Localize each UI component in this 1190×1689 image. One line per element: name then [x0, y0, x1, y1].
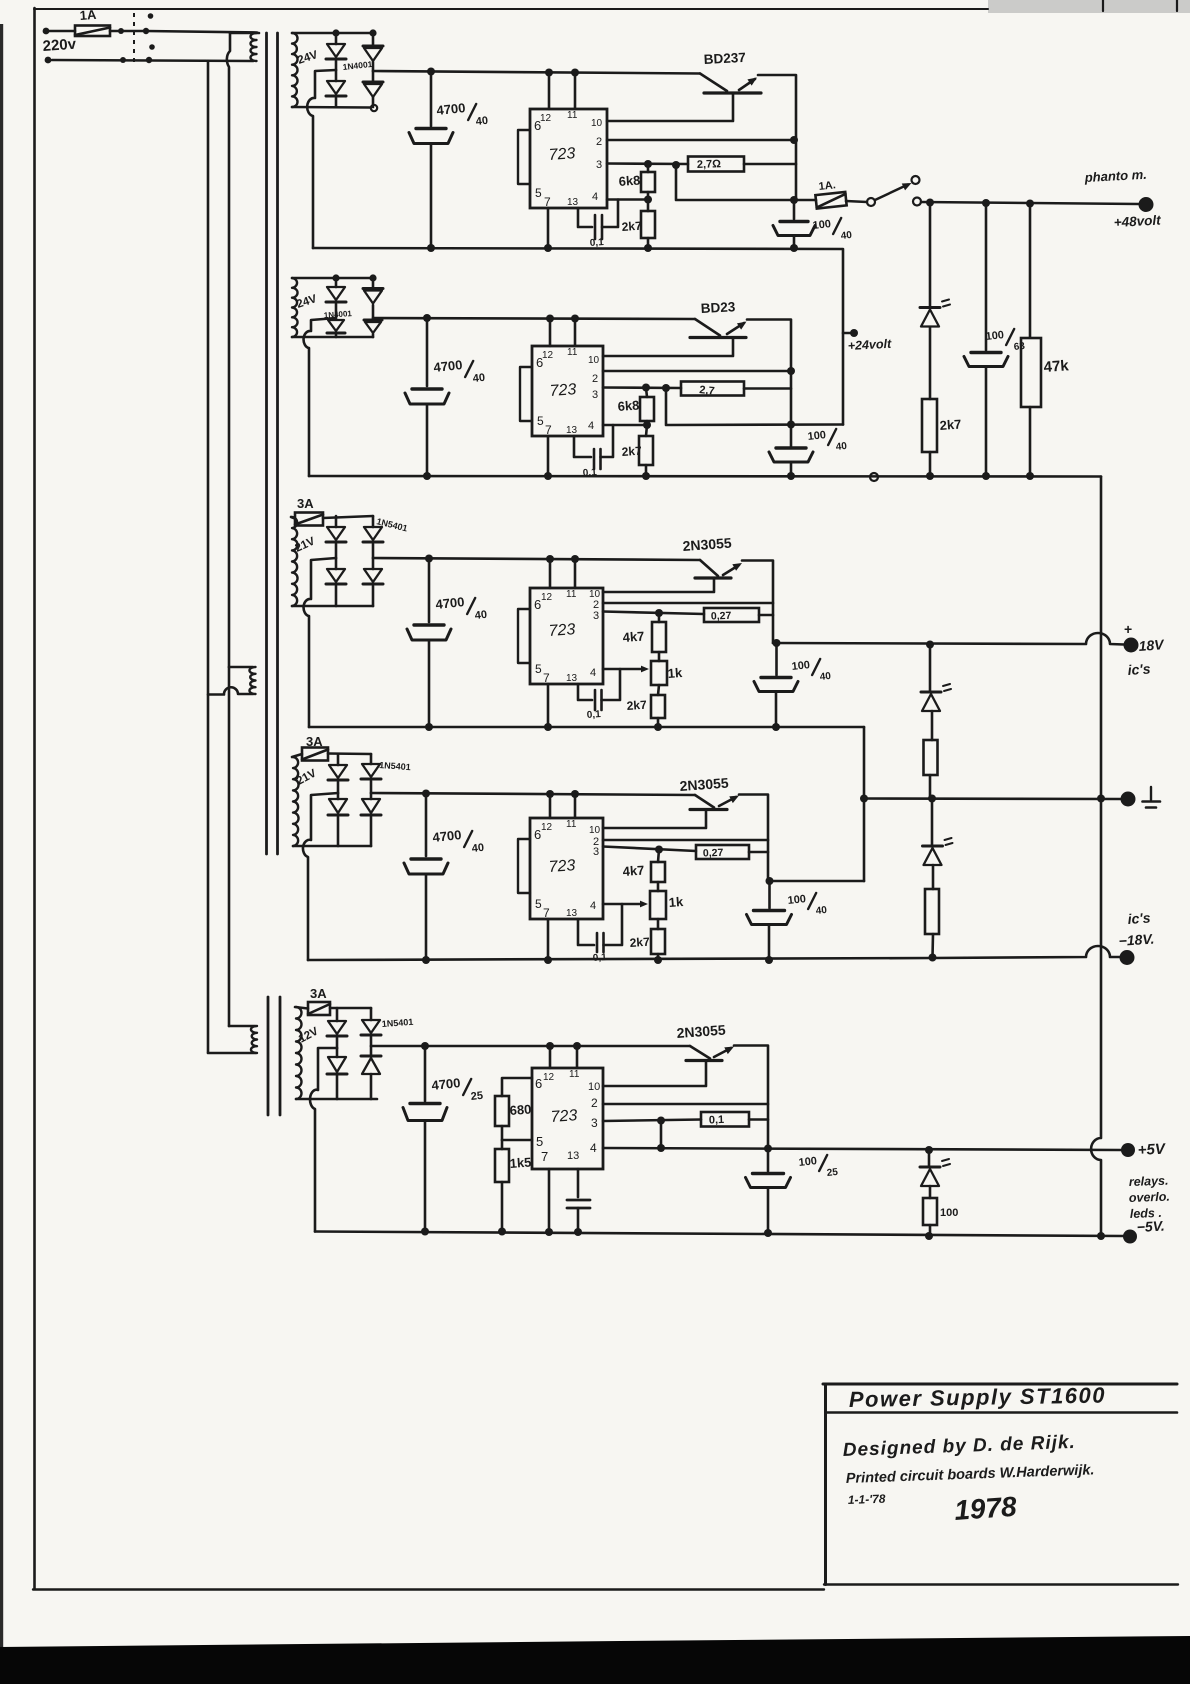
- wire U4 pin7 to bus: [547, 919, 550, 960]
- bridge B2 diode D8 top-right: [372, 278, 375, 287]
- svg-text:6: 6: [534, 827, 541, 842]
- capacitor C15 100/25: [767, 1149, 770, 1172]
- junction pin3 dots: [644, 160, 652, 168]
- svg-text:13: 13: [566, 425, 578, 436]
- capacitor C9 0.1: [578, 684, 592, 700]
- wire coil to fuse3: [291, 517, 295, 519]
- ground symbol: [1150, 787, 1152, 800]
- wire coil to fuse4: [292, 754, 302, 757]
- wire Q5 base to pin10: [603, 1061, 706, 1087]
- svg-text:3: 3: [596, 159, 602, 171]
- scanner gray band top-right: [988, 0, 1190, 13]
- bridge B3 diode top-right: [372, 516, 375, 527]
- svg-text:0,27: 0,27: [711, 610, 732, 623]
- resistor R2 6k8: [641, 172, 655, 192]
- wire input top: [49, 30, 75, 33]
- wire coil to fuse5: [295, 1007, 308, 1009]
- junction S1 rail dots: [427, 68, 435, 76]
- wire Q2 emitter down: [747, 320, 791, 425]
- svg-text:2k7: 2k7: [626, 698, 647, 713]
- wire fuse to switch: [110, 30, 146, 33]
- svg-text:2k7: 2k7: [621, 444, 642, 459]
- wire U2 pin2 sense: [603, 370, 791, 373]
- svg-text:ic's: ic's: [1127, 660, 1151, 678]
- transistor Q4 2N3055: [695, 795, 714, 808]
- wire P3 bottom: [208, 1052, 255, 1055]
- wire Q4 emitter down: [739, 795, 768, 882]
- wire U1 pin2 sense: [607, 139, 796, 142]
- transformer primary P2: [229, 666, 253, 669]
- junction -5V bus dots: [421, 1228, 429, 1236]
- switch S1a contacts: [118, 28, 124, 34]
- svg-text:12: 12: [541, 592, 553, 603]
- resistor R21 0.1ohm: [701, 1112, 749, 1127]
- open circle on 0V bus: [870, 473, 878, 481]
- svg-text:2,7: 2,7: [699, 384, 715, 398]
- transistor Q1 BD237: [700, 74, 727, 92]
- junction pin4-6k8 S2: [643, 421, 651, 429]
- svg-text:BD23: BD23: [700, 299, 736, 316]
- wire S2 DC rail: [373, 318, 695, 319]
- resistor R9 0.27ohm: [704, 608, 759, 622]
- wire U4 pin3: [603, 847, 696, 852]
- wire Q4 base to pin10: [603, 810, 706, 829]
- svg-text:0,1: 0,1: [586, 709, 601, 721]
- wire R9 to emitter line: [759, 614, 773, 617]
- svg-text:1978: 1978: [953, 1491, 1018, 1526]
- bridge B4 diode bottom-right: [370, 793, 373, 799]
- wire U3 pin4 to pot wiper: [603, 668, 643, 671]
- wire U5 pin7 to bus: [548, 1169, 551, 1232]
- wire W1 bottom bar: [292, 106, 370, 109]
- op-amp regulator U3 723: [530, 588, 603, 684]
- node -18V terminal: [1120, 950, 1135, 965]
- svg-text:6: 6: [536, 355, 543, 370]
- svg-text:3A: 3A: [310, 986, 327, 1001]
- wire +48V rail: [921, 202, 1139, 204]
- wire bridge1 AC2 down with hop: [307, 70, 336, 248]
- transformer primary P3: [229, 1025, 255, 1028]
- svg-text:40: 40: [471, 842, 484, 855]
- bridge B1 diode D1 top-left 1N4001: [335, 33, 338, 44]
- svg-text:0,1: 0,1: [709, 1114, 725, 1127]
- wire W5 bottom bar: [296, 1098, 377, 1101]
- resistor R8 2k7: [639, 436, 653, 465]
- wire Q5 emitter down: [734, 1046, 768, 1149]
- wire W2 bottom bar: [292, 336, 373, 339]
- wire U4 pin4 to pot wiper: [603, 903, 642, 906]
- bridge B3 diode top-left 1N5401: [335, 516, 338, 527]
- resistor R17 2k7: [651, 929, 665, 954]
- potentiometer R11 1k: [651, 661, 667, 685]
- svg-text:6: 6: [534, 597, 541, 612]
- bridge B5 diode top-right: [370, 1008, 373, 1020]
- junction +18 divider tap: [926, 641, 934, 649]
- svg-text:Power Supply ST1600: Power Supply ST1600: [849, 1383, 1107, 1412]
- junction S3 bus dots: [425, 723, 433, 731]
- svg-text:11: 11: [566, 819, 577, 830]
- page border bottom: [33, 1588, 824, 1590]
- wire U1 pin7 to bus: [547, 208, 550, 248]
- wire S5 bottom bus -5V: [315, 1232, 1124, 1237]
- svg-text:−5V.: −5V.: [1136, 1218, 1165, 1235]
- wire fuse3 to bridge: [323, 516, 373, 518]
- node +18V terminal: [1124, 638, 1139, 653]
- svg-text:3: 3: [592, 389, 598, 401]
- wire common vertical right: [1091, 477, 1101, 1237]
- svg-text:1A: 1A: [79, 7, 97, 23]
- wire right loop S3bus to S4 output: [863, 727, 866, 881]
- node +48volt terminal: [1139, 197, 1154, 212]
- svg-text:7: 7: [543, 671, 550, 685]
- transformer core B: [267, 997, 270, 1115]
- zener D10 upper: [929, 645, 932, 692]
- svg-text:3: 3: [593, 610, 599, 622]
- svg-text:2k7: 2k7: [939, 417, 962, 433]
- svg-text:100: 100: [812, 218, 832, 232]
- svg-text:2k7: 2k7: [621, 219, 642, 234]
- svg-text:13: 13: [567, 1150, 579, 1162]
- node ground terminal: [1121, 792, 1136, 807]
- svg-text:+48volt: +48volt: [1113, 213, 1161, 230]
- svg-text:40: 40: [840, 230, 853, 242]
- wire W2 top to bridge: [292, 277, 373, 280]
- resistor R15 4k7: [651, 862, 665, 882]
- wire bridge3 AC2 down with hop: [304, 558, 336, 727]
- switch S2 on-off: [846, 201, 867, 202]
- svg-text:3: 3: [593, 846, 599, 858]
- zener D5 on +48 divider: [929, 203, 932, 307]
- svg-text:2: 2: [592, 373, 598, 385]
- wire R21 to emitter line: [749, 1118, 768, 1121]
- svg-text:2,7Ω: 2,7Ω: [697, 158, 722, 171]
- svg-text:11: 11: [567, 110, 578, 121]
- svg-text:1-1-'78: 1-1-'78: [848, 1492, 886, 1507]
- svg-text:100: 100: [807, 429, 827, 443]
- svg-text:4700: 4700: [436, 100, 466, 118]
- svg-text:+24volt: +24volt: [847, 337, 892, 353]
- svg-text:4: 4: [592, 191, 598, 203]
- svg-text:overlo.: overlo.: [1129, 1190, 1170, 1205]
- svg-text:1A.: 1A.: [818, 179, 836, 193]
- wire P2 bottom with hop over P-link: [208, 687, 253, 694]
- wire U2 top leads: [549, 319, 552, 347]
- svg-text:11: 11: [567, 347, 578, 358]
- wire S1 bottom bus to +24 link: [313, 248, 843, 425]
- transformer secondary W5 12V: [296, 1007, 302, 1099]
- svg-text:723: 723: [549, 381, 577, 400]
- svg-text:47k: 47k: [1043, 357, 1070, 376]
- junction +5V line dots: [657, 1144, 665, 1152]
- fuse F1 1A: [75, 26, 110, 37]
- wire U3 pin7 to bus: [547, 684, 550, 727]
- bridge B5 diode bottom-right: [370, 1046, 373, 1055]
- node +5V terminal: [1121, 1143, 1135, 1157]
- junction bridge1 top: [332, 29, 339, 36]
- svg-text:40: 40: [472, 372, 485, 385]
- junction ground dots: [860, 795, 868, 803]
- svg-text:4: 4: [590, 1141, 597, 1155]
- svg-text:2N3055: 2N3055: [679, 775, 729, 794]
- wire U5 pin3: [603, 1120, 701, 1122]
- wire U1 pin4: [607, 198, 648, 201]
- resistor R22 100: [923, 1198, 937, 1225]
- capacitor C4 100/63: [985, 203, 988, 350]
- bridge B2 diode D7 bottom-left: [328, 320, 344, 331]
- wire mains top to primary: [146, 31, 257, 33]
- wire primary mid link: [228, 667, 231, 1026]
- capacitor C8 4700/40: [428, 559, 431, 623]
- wire S1 DC rail: [373, 71, 700, 74]
- op-amp regulator U5 723: [532, 1068, 603, 1169]
- wire R6 to emitter line: [744, 387, 791, 390]
- wire U2 pin3: [603, 386, 681, 389]
- svg-text:100: 100: [787, 893, 807, 907]
- wire U4 top leads: [549, 794, 552, 818]
- svg-text:5: 5: [536, 1134, 543, 1149]
- resistor R4 2k7 divider: [922, 399, 937, 452]
- wire ground line: [864, 797, 1121, 800]
- wire S3 bottom bus: [309, 726, 864, 729]
- junction +18 line cap tap: [773, 639, 781, 647]
- svg-text:+: +: [1124, 621, 1132, 637]
- svg-text:100: 100: [798, 1155, 818, 1169]
- resistor R3 2k7: [641, 211, 655, 238]
- junction pin2-emitter S2: [787, 367, 795, 375]
- switch S1b contacts: [120, 57, 126, 63]
- svg-text:13: 13: [567, 197, 579, 208]
- capacitor C10 100/40: [775, 643, 778, 675]
- bridge B5 diode top-left 1N5401: [336, 1008, 339, 1021]
- svg-text:4700: 4700: [432, 827, 462, 845]
- svg-text:40: 40: [819, 671, 832, 683]
- svg-text:5: 5: [535, 662, 542, 676]
- wire mains bottom to primary: [52, 60, 253, 61]
- wire U5 pin2 sense: [603, 1103, 768, 1106]
- svg-text:+5V: +5V: [1137, 1140, 1167, 1158]
- bridge B4 diode top-left 1N5401: [337, 754, 340, 765]
- junction pin2-emitter: [790, 136, 798, 144]
- svg-text:10: 10: [588, 1081, 600, 1093]
- wire S4 DC rail: [371, 793, 695, 795]
- svg-text:25: 25: [826, 1167, 839, 1179]
- capacitor C1 4700/40: [430, 72, 433, 127]
- wire Q1 base to pin10: [607, 93, 733, 121]
- svg-text:13: 13: [566, 908, 578, 919]
- resistor R1 2.7ohm: [688, 157, 744, 172]
- wire pin3-pin4 strap: [660, 1121, 663, 1149]
- svg-text:3: 3: [591, 1116, 598, 1130]
- svg-text:4: 4: [590, 900, 596, 912]
- wire fuse5 to bridge: [330, 1007, 371, 1010]
- wire Q1 emitter to rail right: [758, 75, 796, 200]
- transformer secondary W3 21V: [292, 517, 298, 606]
- resistor R14 0.27ohm: [696, 845, 749, 859]
- wire primary left down: [207, 61, 210, 1053]
- svg-text:6: 6: [534, 118, 541, 133]
- bridge B2 diode D9 bottom-right: [364, 319, 382, 322]
- transformer core A: [265, 33, 268, 854]
- svg-text:18V: 18V: [1138, 636, 1166, 654]
- svg-text:63: 63: [1013, 341, 1026, 353]
- svg-text:40: 40: [815, 905, 828, 917]
- svg-text:−18V.: −18V.: [1118, 931, 1155, 949]
- wire +5V output line: [603, 1148, 1121, 1150]
- svg-text:12: 12: [543, 1072, 555, 1083]
- bridge B4 diode top-right: [370, 754, 373, 764]
- wire bridge2 AC2 down with hop: [304, 318, 336, 476]
- wire Q3 emitter down to +18 line: [742, 561, 773, 644]
- scanner black band bottom: [0, 1636, 1190, 1684]
- wire R14 to emitter line: [749, 851, 768, 854]
- svg-text:2N3055: 2N3055: [682, 535, 732, 554]
- svg-text:100: 100: [985, 329, 1005, 343]
- wire U1 pin12 pin11 top leads: [548, 73, 551, 110]
- transformer secondary W1 24V: [292, 33, 298, 107]
- svg-text:5: 5: [535, 186, 542, 200]
- svg-text:12: 12: [540, 113, 552, 124]
- junction common-ground: [1097, 795, 1105, 803]
- junction S4 bus dots: [422, 956, 430, 964]
- svg-text:4k7: 4k7: [622, 629, 645, 645]
- junction pin3 strap S5: [657, 1117, 665, 1125]
- svg-text:4: 4: [590, 667, 596, 679]
- svg-text:4700: 4700: [433, 357, 463, 375]
- open circle bridge1 bottom right: [371, 105, 377, 111]
- fuse F4 3A: [302, 748, 328, 761]
- bridge B1 diode D3 top-right: [372, 33, 375, 45]
- svg-text:ic's: ic's: [1127, 909, 1151, 927]
- resistor R13 divider upper: [924, 740, 938, 775]
- wire sense line to output fuse: [676, 165, 816, 200]
- svg-text:10: 10: [591, 118, 603, 129]
- svg-text:4k7: 4k7: [622, 863, 645, 879]
- transistor Q5 2N3055: [690, 1046, 710, 1059]
- junction S5 rail dots: [421, 1042, 429, 1050]
- junction pin4-6k8: [644, 196, 652, 204]
- wire R1 to emitter line: [744, 163, 796, 166]
- junction 0V bus dots: [423, 472, 431, 480]
- svg-text:100: 100: [791, 659, 811, 673]
- junction +48 rail dots: [926, 199, 934, 207]
- bridge B1 diode D4 bottom-right: [372, 71, 375, 81]
- capacitor C5 4700/40: [426, 318, 429, 386]
- wire U1 pin3: [607, 162, 688, 165]
- bridge B4 diode bottom-left: [337, 793, 340, 799]
- resistor R18 divider lower: [925, 889, 939, 934]
- junction fuse-line cap tap: [790, 196, 798, 204]
- svg-text:723: 723: [548, 857, 576, 876]
- bridge B2 diode D6 top-left 1N4001: [335, 278, 338, 287]
- svg-text:4: 4: [588, 420, 594, 432]
- junction S2 rail dots: [423, 314, 431, 322]
- wire Q2 base to pin10: [603, 338, 733, 357]
- svg-text:2N3055: 2N3055: [676, 1022, 726, 1041]
- junction S4 rail dots: [422, 790, 430, 798]
- svg-text:40: 40: [835, 441, 848, 453]
- wire U3 pin3: [603, 612, 704, 615]
- capacitor C3 100/40: [793, 200, 796, 219]
- svg-text:4700: 4700: [435, 594, 465, 612]
- wire U5 top leads: [549, 1046, 552, 1068]
- svg-text:13: 13: [566, 673, 578, 684]
- op-amp regulator U2 723: [532, 346, 603, 436]
- svg-text:6: 6: [535, 1076, 542, 1091]
- svg-text:10: 10: [589, 825, 601, 836]
- scanner black edge left: [0, 24, 3, 1684]
- bridge B3 diode bottom-right: [372, 558, 375, 569]
- junction pin3-4k7 S4: [655, 846, 663, 854]
- svg-text:2k7: 2k7: [629, 935, 650, 950]
- wire S3 DC rail: [373, 558, 700, 560]
- wire U3 top leads: [549, 559, 552, 588]
- resistor R10 4k7: [652, 622, 666, 652]
- capacitor C7 100/40: [790, 425, 793, 447]
- capacitor C6 0.1: [574, 436, 591, 457]
- wire bridge5 AC2 down with hop: [310, 1048, 337, 1232]
- svg-text:680: 680: [509, 1102, 532, 1118]
- junction pin3-4k7 S3: [655, 609, 663, 617]
- capacitor C16 at pin13: [577, 1169, 580, 1197]
- svg-text:2: 2: [596, 136, 602, 148]
- wire S5 DC rail: [371, 1045, 690, 1048]
- resistor R5 47k: [1029, 204, 1032, 338]
- wire U4 pin2 sense: [603, 839, 768, 842]
- junction S4 output cap tap: [766, 877, 774, 885]
- title block frame: [823, 1383, 1177, 1386]
- wire bridge4 AC2 down with hop: [303, 793, 338, 960]
- capacitor C2 0.1: [578, 208, 592, 227]
- svg-text:6k8: 6k8: [618, 173, 641, 189]
- svg-text:6k8: 6k8: [617, 398, 640, 414]
- svg-text:11: 11: [566, 589, 577, 600]
- svg-text:723: 723: [548, 621, 576, 640]
- svg-text:1k5: 1k5: [509, 1155, 532, 1171]
- junction S3 rail dots: [425, 555, 433, 563]
- wire U2 pin7 to bus: [547, 436, 550, 476]
- transformer secondary W2 24V: [292, 278, 298, 337]
- wire pin5 line: [502, 1139, 532, 1142]
- terminal 220V top: [43, 28, 50, 35]
- capacitor C12 0.1: [578, 919, 594, 945]
- svg-text:723: 723: [548, 145, 576, 164]
- junction +24 rail cap tap: [787, 421, 795, 429]
- wire 680 to pin6: [502, 1078, 532, 1096]
- svg-text:0,27: 0,27: [703, 847, 724, 860]
- wire U2 pin4: [603, 424, 647, 427]
- svg-text:relays.: relays.: [1129, 1174, 1169, 1189]
- wire fuse4 to bridge: [328, 752, 371, 755]
- capacitor C13 100/40: [768, 881, 771, 908]
- bridge B5 diode bottom-left: [336, 1048, 339, 1057]
- resistor R6 2.7ohm: [681, 382, 744, 396]
- wire S2 bottom bus 0V: [309, 475, 1101, 478]
- transformer secondary W4 21V: [293, 757, 299, 846]
- page border top: [34, 8, 988, 10]
- svg-text:1k: 1k: [668, 894, 684, 910]
- svg-text:25: 25: [470, 1090, 483, 1103]
- wire S4 output to right loop: [768, 880, 864, 883]
- svg-text:40: 40: [474, 609, 487, 622]
- capacitor C11 4700/40: [425, 794, 428, 857]
- transformer primary P1: [230, 32, 259, 35]
- fuse F3 3A: [295, 513, 323, 526]
- capacitor C14 4700/25: [424, 1046, 427, 1101]
- resistor R12 2k7: [651, 695, 665, 718]
- op-amp regulator U4 723: [530, 818, 603, 919]
- resistor R7 6k8: [640, 397, 654, 421]
- terminal 220V bottom: [45, 57, 52, 64]
